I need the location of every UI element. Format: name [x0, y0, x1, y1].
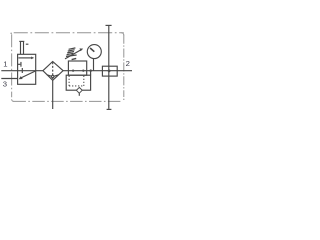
svg-text:3: 3 [3, 79, 7, 88]
svg-text:1: 1 [3, 59, 7, 68]
svg-text:2: 2 [126, 59, 130, 68]
